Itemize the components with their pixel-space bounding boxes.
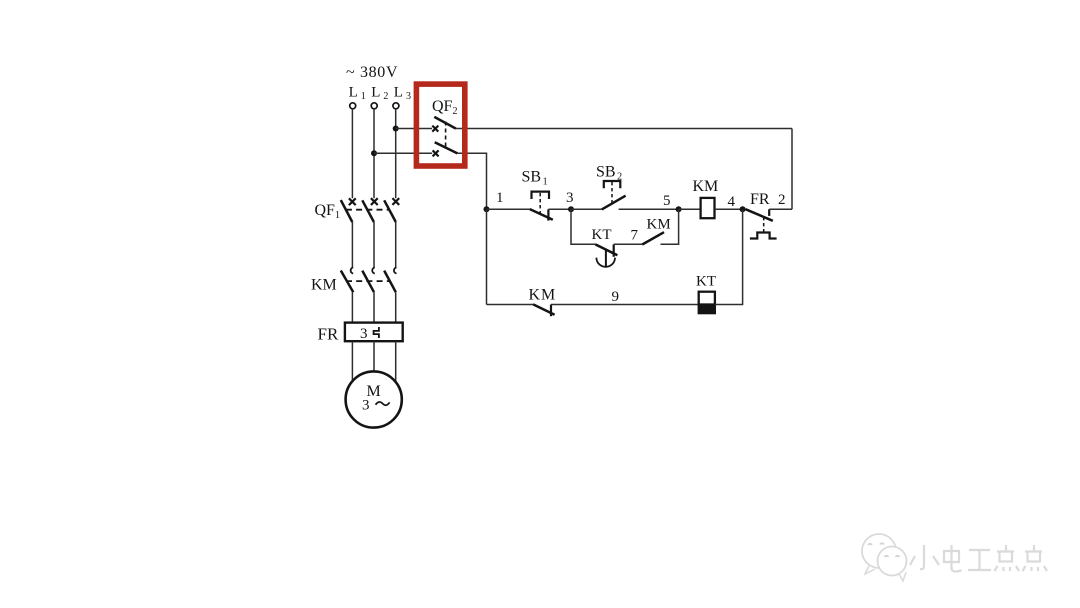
svg-text:3: 3: [362, 398, 370, 414]
wires KM main to FR heater: [352, 292, 395, 323]
wire bottom branch to KM contact: [487, 304, 534, 306]
svg-text:FR: FR: [750, 191, 770, 208]
wire SB2 to node 5: [619, 208, 679, 210]
thermal relay heater FR: [345, 323, 403, 342]
highlight box around QF2: [416, 84, 464, 166]
contactor aux contact KM (NO): [642, 232, 664, 244]
wire FR to right rail: [769, 208, 792, 210]
net label 3: [566, 190, 574, 206]
pushbutton SB2 (NO): [602, 181, 626, 209]
svg-text:~ 380V: ~ 380V: [346, 64, 398, 81]
terminal L1: [349, 85, 366, 109]
svg-text:7: 7: [631, 228, 639, 244]
breaker QF1: [341, 198, 399, 222]
net label 9: [612, 289, 620, 305]
label KM aux: [647, 217, 671, 233]
label KT coil: [696, 274, 716, 290]
svg-text:2: 2: [778, 192, 786, 208]
net label 1: [496, 190, 504, 206]
thermal relay contact FR (NC): [746, 209, 777, 238]
svg-text:FR: FR: [318, 325, 339, 344]
svg-text:KM: KM: [529, 287, 557, 304]
wire right rail vertical: [791, 129, 793, 210]
node 3: [568, 206, 574, 212]
svg-text:1: 1: [496, 190, 504, 206]
terminal L2: [371, 85, 388, 109]
wire KM coil to node 4: [715, 208, 743, 210]
wire KM aux to node 5: [661, 209, 679, 244]
svg-text:3: 3: [566, 190, 574, 206]
wire L3 to QF2 upper contact: [396, 128, 432, 130]
svg-text:KT: KT: [592, 227, 612, 243]
timer coil KT: [698, 292, 716, 315]
svg-text:5: 5: [663, 193, 671, 209]
wire L3 vertical: [395, 109, 397, 199]
wire L2 to QF2 lower contact: [374, 152, 432, 154]
contactor coil KM: [701, 198, 715, 218]
label KM main: [311, 277, 337, 294]
wire SB1 to node 3: [548, 208, 571, 210]
svg-text:KM: KM: [311, 277, 337, 294]
wire QF2 upper output to top rail: [456, 128, 792, 130]
wire KT coil to node 4: [715, 209, 743, 304]
wires FR heater to motor: [352, 341, 395, 382]
label SB2: [596, 164, 622, 183]
watermark logo: [862, 534, 907, 581]
net label 5: [663, 193, 671, 209]
node 1: [484, 206, 490, 212]
node tap on L3: [393, 126, 399, 132]
label FR: [750, 191, 770, 208]
terminal L3: [393, 85, 411, 109]
net label 7: [631, 228, 639, 244]
label KM bottom: [529, 287, 557, 304]
wire KT to KM aux: [614, 243, 643, 245]
node tap on L2: [371, 150, 377, 156]
wire node5 to KM coil: [679, 208, 701, 210]
timer contact KT (NC delayed open): [595, 244, 617, 267]
watermark text: [910, 545, 1047, 572]
svg-text:KM: KM: [647, 217, 671, 233]
breaker QF2 contacts: [432, 117, 457, 156]
svg-text:KM: KM: [693, 178, 719, 195]
wire node3 to SB2: [571, 208, 602, 210]
pushbutton SB1 (NC): [530, 192, 553, 221]
label FR heater: [318, 325, 339, 344]
node 4: [740, 206, 746, 212]
label QF2: [432, 98, 457, 117]
wire node3 branch down: [571, 209, 596, 244]
wire L2 vertical: [373, 109, 375, 199]
svg-text:3: 3: [360, 326, 368, 342]
wires QF1 to KM main: [352, 222, 395, 267]
net label 2: [778, 192, 786, 208]
wire node1 down to bottom branch: [486, 209, 488, 304]
svg-text:4: 4: [728, 194, 736, 210]
wire L1 vertical: [351, 109, 353, 199]
contactor aux contact KM (bottom branch): [533, 304, 554, 316]
label SB1: [522, 169, 548, 188]
label KM coil: [693, 178, 719, 195]
label KT contact: [592, 227, 612, 243]
contactor main contacts KM: [341, 267, 397, 292]
label QF1: [315, 202, 340, 221]
svg-text:9: 9: [612, 289, 620, 305]
wire KM bottom to KT coil: [551, 304, 699, 306]
wire node1 to SB1: [487, 208, 531, 210]
supply label ~380V: [346, 64, 398, 81]
wire QF2 lower output to node 1: [457, 153, 486, 209]
motor M 3~: [346, 371, 402, 427]
svg-text:KT: KT: [696, 274, 716, 290]
node 5: [676, 206, 682, 212]
net label 4: [728, 194, 736, 210]
